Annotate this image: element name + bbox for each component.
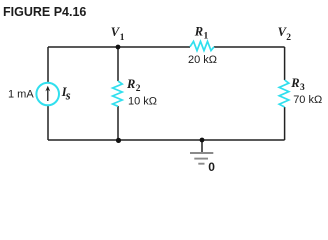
- svg-text:R: R: [290, 76, 299, 90]
- svg-text:R: R: [194, 25, 203, 39]
- svg-text:10 kΩ: 10 kΩ: [128, 95, 157, 107]
- svg-text:s: s: [65, 89, 71, 103]
- svg-text:1 mA: 1 mA: [8, 89, 34, 101]
- svg-text:20 kΩ: 20 kΩ: [188, 54, 217, 66]
- svg-text:0: 0: [208, 160, 215, 174]
- svg-text:2: 2: [286, 33, 291, 43]
- svg-text:1: 1: [120, 33, 125, 43]
- svg-text:FIGURE P4.16: FIGURE P4.16: [3, 5, 86, 19]
- svg-text:R: R: [126, 77, 135, 91]
- svg-text:1: 1: [204, 31, 209, 41]
- svg-text:3: 3: [300, 83, 305, 93]
- svg-text:2: 2: [136, 84, 141, 94]
- svg-text:70 kΩ: 70 kΩ: [293, 94, 322, 106]
